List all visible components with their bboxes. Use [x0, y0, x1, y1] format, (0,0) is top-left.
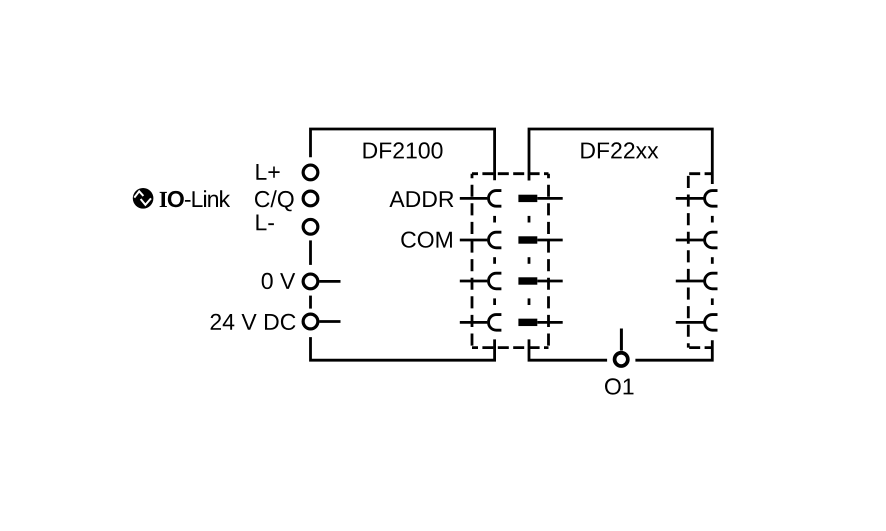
- wire dash 0V to 24V: [309, 296, 312, 309]
- socket contact row3 right: [705, 273, 718, 289]
- label DF2100: [364, 142, 443, 158]
- socket contact row3 left: [489, 273, 502, 289]
- label DF22xx: [581, 142, 658, 158]
- terminal 0V: [303, 274, 318, 289]
- pin contact row2 COM: [518, 236, 537, 243]
- socket column dash 3: [493, 298, 496, 305]
- wire row1 ADDR right: [537, 197, 562, 200]
- socket column dash 1: [493, 216, 496, 223]
- connector socket dashed box right: [688, 172, 712, 175]
- IO-Link logo chevron up: [134, 191, 143, 197]
- terminal C/Q: [303, 191, 318, 206]
- wire row4 right: [537, 321, 562, 324]
- socket contact row2 COM right: [705, 232, 718, 248]
- pin contact row4: [518, 319, 537, 326]
- socket contact row4 left: [488, 315, 501, 331]
- block DF22xx outline top: [529, 129, 712, 184]
- wire row4 out: [676, 321, 705, 324]
- pin column dash 1: [528, 216, 531, 223]
- socket contact row4 right: [705, 315, 718, 331]
- label IO-Link: [160, 190, 231, 207]
- connector plug dashed box left: [472, 172, 549, 175]
- IO-Link logo chevron down: [141, 198, 151, 204]
- label ADDR: [389, 191, 453, 207]
- wire row3 left: [460, 280, 488, 283]
- label 24 V DC: [211, 314, 296, 330]
- wire row3 right: [537, 280, 562, 283]
- block DF22xx outline bottom left: [529, 339, 607, 360]
- socket contact row1 ADDR left: [488, 191, 501, 207]
- output contact O1 actuator: [620, 329, 623, 351]
- block DF2100 outline bottom: [311, 337, 495, 360]
- label O1: [605, 378, 634, 394]
- label L+: [256, 164, 279, 180]
- socket column right dash 2: [711, 257, 714, 264]
- wire row2 COM left: [460, 239, 488, 242]
- block DF2100 outline top: [311, 129, 495, 180]
- socket column right dash 3: [711, 298, 714, 305]
- output contact O1 circle: [615, 353, 628, 366]
- label 0 V: [262, 273, 296, 289]
- pin column dash 3: [528, 298, 531, 305]
- pin contact row1 ADDR: [518, 195, 537, 202]
- wire 0V stub: [319, 280, 340, 283]
- label C/Q: [255, 190, 294, 211]
- wire L- to 0V: [309, 240, 312, 265]
- IO-Link logo circle: [133, 188, 154, 209]
- wire row2 COM right: [537, 239, 562, 242]
- block DF22xx outline bottom right: [635, 340, 712, 360]
- socket column dash 2: [493, 257, 496, 264]
- wire row4 left: [460, 321, 488, 324]
- label COM: [401, 232, 452, 248]
- pin contact row3: [518, 277, 537, 284]
- wire row1 ADDR left: [460, 197, 488, 200]
- terminal L-: [303, 219, 318, 234]
- wire row3 out: [676, 280, 705, 283]
- socket column right dash 1: [711, 216, 714, 223]
- wire row2 COM out: [676, 239, 705, 242]
- wire 24V stub: [319, 320, 340, 323]
- socket contact row1 ADDR right: [705, 191, 718, 207]
- wire row1 ADDR out: [676, 197, 705, 200]
- socket contact row2 COM left: [488, 232, 501, 248]
- pin column dash 2: [528, 257, 531, 264]
- label L-: [256, 215, 274, 231]
- terminal 24V: [303, 314, 318, 329]
- terminal L+: [303, 165, 318, 180]
